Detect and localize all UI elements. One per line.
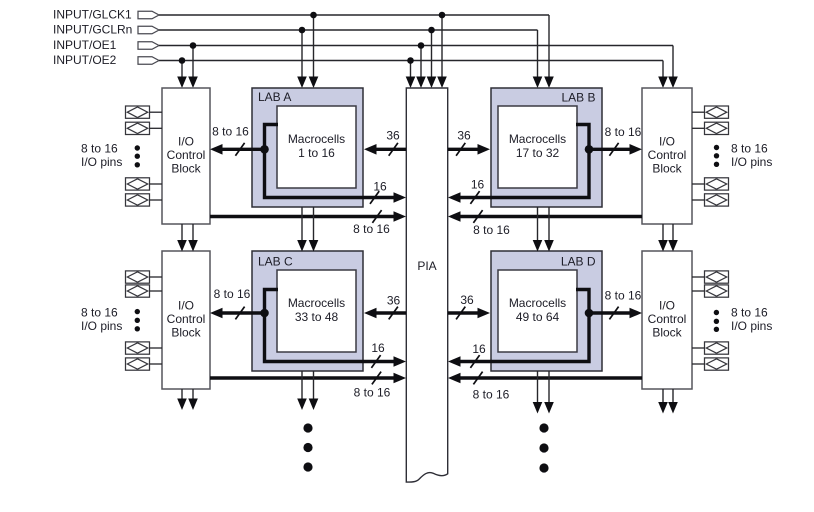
- svg-text:Control: Control: [167, 312, 206, 326]
- svg-text:INPUT/OE1: INPUT/OE1: [53, 38, 117, 52]
- ellipsis dots bottom left: [135, 309, 140, 332]
- I/O Control Block right top: [642, 88, 692, 224]
- svg-text:8 to 16: 8 to 16: [353, 222, 390, 236]
- svg-text:16: 16: [471, 178, 485, 192]
- wire drop to left I/O top x=182: [177, 61, 187, 89]
- bus arrow 16 from LAB C into PIA: [394, 356, 407, 367]
- wire exit below right I/O x=663: [658, 389, 668, 414]
- wire I/O left down x=193: [188, 224, 198, 252]
- wire INPUT/OE2 horizontal: [159, 60, 663, 62]
- wire LAB A to LAB C down x=302: [297, 207, 307, 252]
- LAB A thick feedback path: [265, 125, 395, 198]
- LAB C thick feedback path: [265, 290, 395, 362]
- input pin INPUT/OE2: [53, 53, 159, 67]
- wire drop to LAB B top x=549: [544, 15, 554, 88]
- bus arrow 36 from PIA into LAB D: [448, 311, 478, 314]
- wire exit below right I/O x=673: [668, 389, 678, 414]
- svg-text:Macrocells: Macrocells: [509, 132, 566, 146]
- macrocells box of LAB D: [498, 270, 577, 352]
- wire drop to PIA top x=442: [437, 15, 447, 88]
- bus arrow 8 to 16 from I/O block into PIA: [460, 215, 642, 218]
- svg-text:36: 36: [386, 129, 400, 143]
- I/O Control Block left bottom: [162, 251, 210, 389]
- svg-text:PIA: PIA: [417, 259, 436, 273]
- svg-text:Block: Block: [652, 162, 682, 176]
- svg-text:8 to 16: 8 to 16: [214, 287, 251, 301]
- LAB A block: [252, 88, 363, 207]
- label 8 to 16 I/O pins top left: [81, 142, 122, 170]
- svg-text:Macrocells: Macrocells: [288, 132, 345, 146]
- svg-text:33 to 48: 33 to 48: [295, 310, 339, 324]
- svg-text:1 to 16: 1 to 16: [298, 146, 335, 160]
- input pin INPUT/OE1: [53, 38, 159, 52]
- macrocells box of LAB C: [277, 270, 356, 352]
- bus arrow 16 from LAB A into PIA: [394, 192, 407, 203]
- I/O pin symbol left bottom #1: [126, 271, 163, 283]
- svg-text:17 to 32: 17 to 32: [516, 146, 560, 160]
- junction dot (193,45.5): [190, 42, 197, 49]
- svg-text:16: 16: [373, 180, 387, 194]
- wire exit below LAB D x=537.5: [533, 371, 543, 414]
- I/O pin symbol right bottom #1: [692, 271, 729, 283]
- label 8 to 16 I/O pins top right: [731, 142, 772, 170]
- svg-text:8 to 16: 8 to 16: [605, 125, 642, 139]
- I/O pin symbol right top #2: [692, 122, 729, 134]
- I/O pin symbol left top #3: [126, 178, 163, 190]
- I/O pin symbol right bottom #4: [692, 358, 729, 370]
- wire LAB A to LAB C down x=313.5: [309, 207, 319, 252]
- bus arrow 8 to 16 from LAB D to I/O block: [589, 311, 632, 314]
- bus arrow 8 to 16 from LAB C to I/O block: [222, 311, 265, 314]
- svg-text:INPUT/GCLRn: INPUT/GCLRn: [53, 23, 132, 37]
- wire drop to PIA top x=421: [416, 46, 426, 89]
- wire exit below left I/O x=182: [177, 389, 187, 410]
- svg-text:36: 36: [387, 294, 401, 308]
- macrocells box of LAB A: [277, 106, 356, 188]
- I/O pin symbol right bottom #2: [692, 285, 729, 297]
- I/O pin symbol left top #2: [126, 122, 163, 134]
- wire drop to right I/O top x=663: [658, 61, 668, 89]
- svg-text:LAB B: LAB B: [561, 91, 595, 105]
- svg-text:I/O: I/O: [659, 135, 675, 149]
- I/O pin symbol right top #1: [692, 106, 729, 118]
- bus arrow 36 from PIA into LAB C: [376, 311, 406, 314]
- bus arrow 8 to 16 from I/O block into PIA: [210, 376, 394, 379]
- PIA block (wavy bottom): [406, 88, 447, 482]
- svg-text:I/O pins: I/O pins: [731, 155, 772, 169]
- I/O pin symbol right top #3: [692, 178, 729, 190]
- I/O pin symbol left bottom #3: [126, 342, 163, 354]
- svg-text:36: 36: [457, 129, 471, 143]
- label 8 to 16 I/O pins bottom right: [731, 306, 772, 334]
- svg-text:Macrocells: Macrocells: [288, 296, 345, 310]
- I/O Control Block right bottom: [642, 251, 692, 389]
- svg-text:LAB D: LAB D: [561, 255, 596, 269]
- junction dot (182,60.5): [179, 57, 186, 64]
- svg-text:8 to 16: 8 to 16: [81, 142, 118, 156]
- svg-text:I/O: I/O: [178, 299, 194, 313]
- bus arrow 16 from LAB B into PIA: [448, 192, 461, 203]
- svg-text:49 to 64: 49 to 64: [516, 310, 560, 324]
- junction node LAB D: [585, 309, 594, 318]
- wire exit below left I/O x=193: [188, 389, 198, 410]
- I/O pin symbol left bottom #4: [126, 358, 163, 370]
- svg-text:Control: Control: [167, 148, 206, 162]
- svg-text:8 to 16: 8 to 16: [731, 306, 768, 320]
- wire exit below LAB C x=313.5: [309, 371, 319, 410]
- wire LAB B to LAB D down x=549: [544, 207, 554, 252]
- I/O pin symbol left top #4: [126, 194, 163, 206]
- wire exit below LAB C x=302: [297, 371, 307, 410]
- junction dot (410.5,60.5): [407, 57, 414, 64]
- svg-text:Control: Control: [648, 148, 687, 162]
- svg-text:INPUT/GLCK1: INPUT/GLCK1: [53, 8, 132, 22]
- svg-text:8 to 16: 8 to 16: [212, 125, 249, 139]
- wire LAB B to LAB D down x=537.5: [533, 207, 543, 252]
- svg-text:LAB C: LAB C: [258, 255, 293, 269]
- svg-text:8 to 16: 8 to 16: [473, 223, 510, 237]
- svg-text:16: 16: [472, 342, 486, 356]
- ellipsis dots below LAB C: [303, 423, 312, 471]
- bus arrow 36 from PIA into LAB B: [448, 148, 478, 151]
- junction dot (302,30): [299, 27, 306, 34]
- macrocells box of LAB B: [498, 106, 577, 188]
- label 8 to 16 I/O pins bottom left: [81, 306, 122, 334]
- junction dot (313.5,15): [310, 12, 317, 19]
- LAB B block: [491, 88, 602, 207]
- LAB D block: [491, 251, 602, 371]
- I/O pin symbol left bottom #2: [126, 285, 163, 297]
- svg-text:Macrocells: Macrocells: [509, 296, 566, 310]
- bus arrow 8 to 16 from LAB B to I/O block: [589, 148, 632, 151]
- svg-text:8 to 16: 8 to 16: [81, 306, 118, 320]
- LAB D thick feedback path: [460, 290, 589, 362]
- svg-text:16: 16: [371, 341, 385, 355]
- junction node LAB A: [260, 145, 269, 154]
- ellipsis dots top right: [714, 145, 719, 167]
- svg-text:I/O: I/O: [659, 299, 675, 313]
- input pin INPUT/GCLRn: [53, 23, 159, 37]
- svg-text:LAB A: LAB A: [258, 90, 291, 104]
- I/O pin symbol left top #1: [126, 106, 163, 118]
- wire I/O right down x=673: [668, 224, 678, 252]
- svg-text:I/O pins: I/O pins: [81, 319, 122, 333]
- wire INPUT/GLCK1 horizontal: [159, 14, 549, 16]
- svg-text:8 to 16: 8 to 16: [473, 388, 510, 402]
- svg-text:Block: Block: [171, 326, 201, 340]
- svg-text:Block: Block: [171, 162, 201, 176]
- svg-text:8 to 16: 8 to 16: [605, 289, 642, 303]
- bus arrow 8 to 16 from I/O block into PIA: [210, 215, 394, 218]
- wire exit below LAB D x=549: [544, 371, 554, 414]
- I/O Control Block left top: [162, 88, 210, 224]
- svg-text:I/O pins: I/O pins: [731, 319, 772, 333]
- wire INPUT/GCLRn horizontal: [159, 29, 538, 31]
- junction node LAB C: [260, 309, 269, 318]
- bus arrow 8 to 16 from I/O block into PIA: [460, 376, 642, 379]
- junction dot (431.5,30): [428, 27, 435, 34]
- wire drop to LAB A top x=313.5: [309, 15, 319, 88]
- svg-text:8 to 16: 8 to 16: [354, 386, 391, 400]
- LAB B thick feedback path: [460, 125, 589, 198]
- svg-text:36: 36: [460, 293, 474, 307]
- wire INPUT/OE1 horizontal: [159, 45, 673, 47]
- LAB C block: [252, 251, 363, 371]
- input pin INPUT/GLCK1: [53, 8, 159, 22]
- ellipsis dots top left: [135, 145, 140, 167]
- bus arrow 16 from LAB D into PIA: [448, 356, 461, 367]
- ellipsis dots below LAB D: [539, 423, 548, 472]
- svg-text:I/O pins: I/O pins: [81, 155, 122, 169]
- svg-text:INPUT/OE2: INPUT/OE2: [53, 53, 117, 67]
- junction dot (442,15): [439, 12, 446, 19]
- wire I/O left down x=182: [177, 224, 187, 252]
- svg-text:Control: Control: [648, 312, 687, 326]
- I/O pin symbol right bottom #3: [692, 342, 729, 354]
- svg-text:I/O: I/O: [178, 135, 194, 149]
- wire drop to LAB A top x=302: [297, 30, 307, 88]
- wire drop to left I/O top x=193: [188, 46, 198, 89]
- junction node LAB B: [585, 145, 594, 154]
- svg-text:8 to 16: 8 to 16: [731, 142, 768, 156]
- wire drop to PIA top x=410.5: [406, 61, 416, 89]
- ellipsis dots bottom right: [714, 310, 719, 332]
- bus arrow 36 from PIA into LAB A: [376, 148, 406, 151]
- wire drop to PIA top x=431.5: [427, 30, 437, 88]
- svg-text:Block: Block: [652, 326, 682, 340]
- I/O pin symbol right top #4: [692, 194, 729, 206]
- wire drop to LAB B top x=537.5: [533, 30, 543, 88]
- bus arrow 8 to 16 from LAB A to I/O block: [222, 148, 265, 151]
- junction dot (421,45.5): [418, 42, 425, 49]
- wire drop to right I/O top x=673: [668, 46, 678, 89]
- wire I/O right down x=663: [658, 224, 668, 252]
